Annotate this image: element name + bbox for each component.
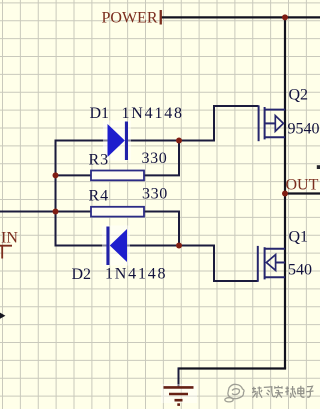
wire node to Q2 gate — [179, 106, 259, 141]
resistor R4 — [91, 207, 144, 217]
diode D1 1N4148 — [103, 121, 131, 161]
wire OUT net — [285, 192, 320, 194]
svg-text:330: 330 — [142, 186, 168, 203]
svg-text:Q2: Q2 — [289, 87, 309, 104]
wire R3 left — [56, 174, 92, 176]
svg-text:IN: IN — [1, 230, 18, 247]
svg-text:1N4148: 1N4148 — [105, 266, 167, 283]
svg-text:D2: D2 — [72, 266, 92, 283]
watermark text 张飞实战电子 — [252, 386, 314, 398]
svg-text:R4: R4 — [89, 188, 110, 205]
junction bus/IN/R4 — [53, 209, 59, 215]
svg-text:R3: R3 — [89, 152, 110, 169]
wire R4 right to node — [144, 212, 180, 247]
wire POWER rail horizontal — [162, 16, 320, 18]
ground — [161, 384, 197, 405]
wire D2 cathode — [55, 245, 108, 247]
svg-text:D1: D1 — [90, 105, 110, 122]
wire main vertical rail (Q2 drain / OUT / Q1 drain) — [284, 16, 286, 368]
power port POWER — [160, 10, 162, 25]
wire left bus vertical — [55, 140, 57, 247]
wire D1 cathode to node — [128, 140, 181, 142]
port IN edge mark — [0, 245, 12, 259]
junction OUT — [282, 191, 288, 197]
wire D2 anode to node — [127, 245, 180, 247]
node marker left edge — [0, 313, 5, 319]
wire IN net to R4 — [0, 211, 92, 213]
node marker right edge — [317, 165, 320, 169]
wire Q1 source to ground — [179, 367, 287, 369]
svg-text:330: 330 — [142, 150, 168, 167]
watermark logo — [225, 384, 244, 402]
junction D1/R3/Q2 gate — [176, 138, 182, 144]
svg-text:9540: 9540 — [288, 121, 320, 138]
transistor Q1 N-MOSFET — [258, 246, 285, 282]
diode D2 1N4148 — [102, 226, 130, 266]
junction R4/D2/Q1 gate — [176, 243, 182, 249]
svg-text:OUT: OUT — [286, 177, 319, 194]
resistor R3 — [91, 171, 144, 181]
wire R4 left — [56, 211, 92, 213]
svg-text:POWER: POWER — [102, 9, 158, 26]
wire ground stem — [178, 367, 180, 386]
wire D1 anode — [55, 140, 108, 142]
junction bus/R3 — [53, 172, 59, 178]
svg-text:Q1: Q1 — [289, 229, 309, 246]
wire R3 right to node — [144, 142, 180, 176]
wire node to Q1 gate — [179, 246, 258, 282]
transistor Q2 P-MOSFET — [259, 105, 285, 141]
svg-text:540: 540 — [288, 262, 312, 279]
junction POWER/rail — [282, 14, 288, 20]
svg-text:1N4148: 1N4148 — [122, 105, 184, 122]
